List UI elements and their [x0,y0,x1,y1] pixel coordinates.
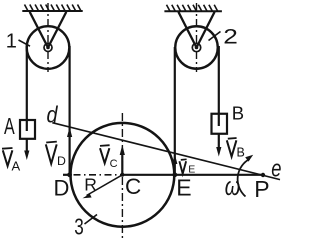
svg-text:3: 3 [74,213,84,239]
rope and vector V_D [67,46,72,175]
svg-text:D: D [57,154,66,168]
node P [261,173,265,177]
axis centerline D to C dash-dot [70,174,122,176]
label V_D [46,142,66,168]
rope and vector V_E [172,47,177,175]
pulley 1 hub [44,44,52,52]
leader line label 3 [85,215,98,225]
leader line label 1 [19,40,31,46]
rope to block A [26,46,28,120]
vector V_C [120,145,125,175]
svg-text:P: P [254,176,269,202]
ceiling hatching left [25,5,82,12]
svg-text:d: d [47,101,59,127]
pulley 2 wheel [175,26,218,69]
svg-text:A: A [12,159,21,174]
label V_C [100,145,118,170]
ceiling hatching right [167,5,218,12]
node C [120,173,124,177]
svg-text:B: B [232,103,244,124]
rope stub inside block B [218,114,220,126]
svg-text:R: R [84,175,97,195]
rope stub inside block A [26,120,28,131]
ceiling support left [22,10,82,12]
svg-text:A: A [4,113,15,139]
svg-text:e: e [271,155,281,182]
rope to block B [218,46,220,114]
label V_E [179,159,195,175]
leader line label 2 [209,32,221,41]
disk 3 [71,123,175,227]
vector V_A [24,139,29,160]
svg-text:E: E [176,175,191,201]
node E [172,172,177,177]
svg-text:C: C [125,174,141,199]
axis line C to P [122,174,263,176]
svg-text:1: 1 [6,30,17,52]
centerline pulley 1 [47,3,49,72]
svg-text:2: 2 [223,26,238,49]
ceiling support right [164,10,222,12]
radius arrow R [83,175,123,198]
disk vertical centerline [121,113,123,239]
bracket triangle pulley 2 [178,12,214,48]
vector V_B [216,134,221,157]
pulley 2 hub [192,43,200,51]
axis stub left of D [63,174,71,176]
pulley 1 wheel [27,26,70,69]
block A [20,120,35,139]
svg-text:D: D [54,176,70,201]
velocity distribution line d-e [52,123,280,180]
svg-text:B: B [237,146,245,160]
centerline pulley 2 [196,3,198,72]
bracket triangle pulley 1 [30,12,67,48]
label V_B [227,138,245,160]
svg-text:ω: ω [225,171,240,201]
label V_A [2,148,21,174]
svg-text:C: C [110,158,118,170]
angular velocity arc omega [238,155,254,197]
node D [67,172,72,177]
block B [212,114,228,134]
